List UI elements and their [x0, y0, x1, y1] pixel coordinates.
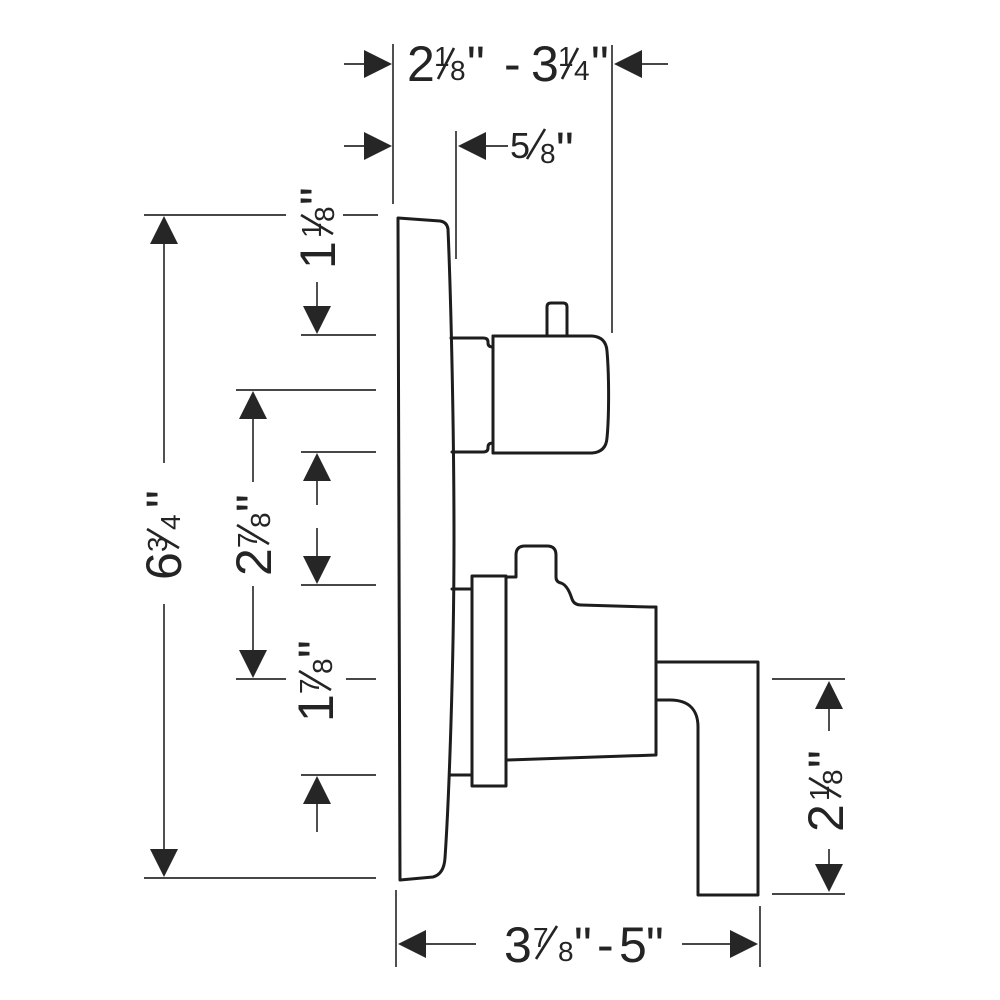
svg-text:4: 4 [155, 514, 186, 530]
svg-text:1: 1 [434, 41, 450, 72]
svg-text:7: 7 [533, 922, 549, 953]
svg-text:1: 1 [290, 241, 346, 269]
svg-text:5: 5 [510, 125, 530, 166]
svg-text:4: 4 [574, 55, 590, 86]
svg-text:2: 2 [407, 36, 435, 92]
svg-text:": " [288, 640, 344, 658]
svg-text:1: 1 [558, 41, 574, 72]
svg-text:8: 8 [817, 769, 848, 785]
svg-text:6: 6 [136, 552, 192, 580]
svg-text:7: 7 [294, 678, 325, 694]
svg-text:": " [574, 917, 592, 973]
svg-text:": " [467, 36, 485, 92]
svg-text:8: 8 [540, 138, 556, 169]
svg-text:8: 8 [558, 936, 574, 967]
svg-text:3: 3 [504, 917, 532, 973]
svg-text:3: 3 [142, 536, 173, 552]
svg-text:7: 7 [232, 532, 263, 548]
svg-text:8: 8 [307, 658, 338, 674]
svg-text:2: 2 [226, 548, 282, 576]
svg-text:-: - [597, 917, 614, 973]
svg-text:8: 8 [450, 55, 466, 86]
svg-text:": " [591, 36, 609, 92]
svg-text:1: 1 [804, 785, 835, 801]
svg-text:": " [646, 917, 664, 973]
svg-text:": " [798, 750, 854, 768]
svg-text:": " [556, 122, 574, 178]
svg-text:": " [290, 187, 346, 205]
svg-text:": " [136, 490, 192, 508]
svg-text:8: 8 [245, 512, 276, 528]
svg-text:3: 3 [531, 36, 559, 92]
svg-text:": " [226, 494, 282, 512]
svg-text:1: 1 [288, 694, 344, 722]
svg-text:5: 5 [619, 917, 647, 973]
svg-text:8: 8 [309, 206, 340, 222]
svg-text:2: 2 [798, 804, 854, 832]
svg-text:-: - [504, 36, 521, 92]
svg-text:1: 1 [296, 222, 327, 238]
